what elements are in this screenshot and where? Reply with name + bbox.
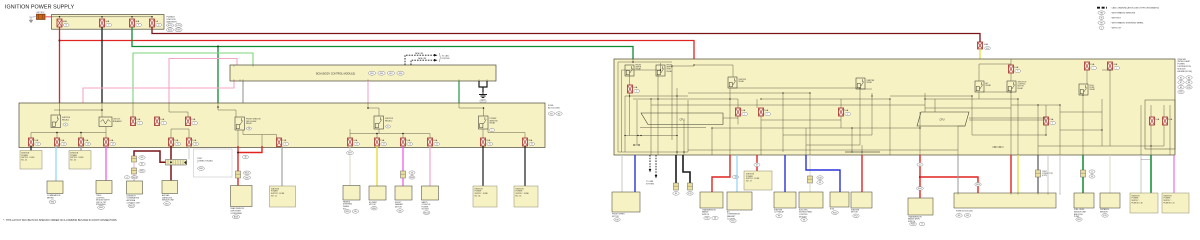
svg-text:CONNECTOR-M04: CONNECTOR-M04 — [197, 160, 213, 162]
wire dark gray to fuse block — [1037, 155, 1039, 170]
svg-text:M65: M65 — [370, 73, 374, 75]
svg-text:* : THIS LAYOUT MAY BE IN NO S: * : THIS LAYOUT MAY BE IN NO SPECIFIC OR… — [3, 219, 118, 222]
svg-text:NO. 46: NO. 46 — [70, 160, 76, 162]
fuse IPDM 20A 45 — [1108, 62, 1113, 70]
wire white front wiper — [621, 155, 623, 192]
wire maroon branch to antenna — [134, 151, 166, 162]
svg-text:SWITCH: SWITCH — [702, 214, 710, 216]
svg-text:e: e — [744, 114, 745, 116]
wire pink BCM down to fuse block — [367, 81, 369, 103]
ECM box — [830, 192, 849, 207]
svg-text:10A: 10A — [764, 109, 768, 112]
electric works box — [799, 192, 823, 208]
wire green fuel pump — [1082, 155, 1084, 170]
fusible link F1 40A — [57, 19, 62, 27]
fuse row bottom 10 — [428, 138, 433, 146]
svg-text:F101: F101 — [833, 212, 837, 214]
CAN data line 1 — [405, 55, 434, 65]
svg-text:B85: B85 — [245, 177, 248, 179]
svg-text:NO. 47: NO. 47 — [746, 181, 752, 183]
svg-text:IGNITION POWER SUPPLY: IGNITION POWER SUPPLY — [5, 5, 75, 11]
svg-text:M34: M34 — [51, 202, 55, 204]
svg-text:M77: M77 — [348, 153, 352, 155]
svg-text:: WITH HEATED MIRRORS: : WITH HEATED MIRRORS — [1111, 12, 1136, 15]
svg-text:28: 28 — [411, 172, 413, 174]
svg-text:M46: M46 — [199, 168, 203, 170]
svg-text:RELAY: RELAY — [867, 81, 873, 84]
wire red to fuse block — [1010, 155, 1012, 193]
fuse row bottom 3 — [79, 138, 84, 146]
svg-text:47: 47 — [756, 165, 758, 167]
CPU bar 2 — [917, 112, 969, 126]
wire white short — [188, 146, 190, 160]
svg-text:DATA LINE: DATA LINE — [418, 57, 427, 60]
svg-text:FUSE BLOCK (J/B): FUSE BLOCK (J/B) — [956, 211, 973, 213]
svg-text:M2: M2 — [558, 113, 561, 115]
wire magenta to TWDS module — [105, 146, 107, 181]
svg-text:: WITH CVT: : WITH CVT — [1111, 28, 1123, 30]
svg-text:20A: 20A — [1113, 63, 1117, 66]
svg-text:11: 11 — [1091, 171, 1093, 173]
svg-text:4: 4 — [127, 177, 128, 179]
text box ignition power supply right 2 — [1162, 193, 1189, 213]
wire white to fuse block 2 — [1059, 155, 1061, 193]
circuit breaker — [99, 117, 112, 127]
ground wire 2 — [683, 155, 690, 183]
ground wire 1 — [675, 155, 677, 183]
ground connector oval — [480, 99, 486, 103]
svg-text:SENSOR: SENSOR — [1100, 212, 1108, 214]
svg-text:22: 22 — [383, 144, 385, 146]
fusible link F4 100A — [150, 19, 155, 27]
wire red PNP switch — [919, 155, 921, 163]
svg-text:M57: M57 — [481, 101, 485, 103]
ignition relay-1 — [51, 115, 61, 128]
svg-text:M84: M84 — [99, 207, 103, 209]
svg-text:RELAY: RELAY — [739, 80, 745, 83]
svg-text:25: 25 — [489, 144, 491, 146]
legend HS — [1098, 21, 1105, 25]
fuse row bottom 9 — [401, 138, 406, 146]
combination meter box — [47, 181, 63, 194]
svg-text:*: * — [197, 163, 198, 165]
svg-text:: CAN COMMUNICATION LINE (TYPE: : CAN COMMUNICATION LINE (TYPE DESIGNATE… — [1111, 7, 1160, 10]
wire red transmission — [712, 155, 730, 192]
air bag diagnosis box — [162, 181, 178, 194]
svg-text:M9: M9 — [354, 211, 357, 213]
svg-text:M30: M30 — [346, 211, 350, 213]
connector square wiper — [401, 171, 406, 178]
svg-text:10A: 10A — [433, 139, 437, 142]
wire dark green branch to fuse block — [217, 47, 219, 104]
A C compressor box — [727, 192, 752, 210]
svg-text:26: 26 — [531, 144, 533, 146]
junction dot green — [217, 46, 219, 48]
svg-text:11: 11 — [37, 144, 39, 146]
IPDM inner box right — [1145, 100, 1175, 149]
front window defogger relay — [218, 103, 236, 117]
connector oval M77 — [349, 146, 351, 151]
fuse IPDM 10A 38 — [839, 108, 844, 116]
legend MT — [1099, 16, 1104, 20]
svg-text:B24: B24 — [1077, 219, 1080, 221]
wire red horizontal to IPDM — [60, 41, 695, 60]
svg-text:10A: 10A — [136, 118, 140, 121]
svg-text:M67: M67 — [389, 73, 393, 75]
svg-text:15A: 15A — [380, 139, 384, 142]
svg-text:: WITH HEATED STEERING WHEEL: : WITH HEATED STEERING WHEEL — [1111, 22, 1145, 25]
wire green BCM down to fuse block — [458, 81, 460, 103]
svg-text:10A: 10A — [1168, 118, 1172, 121]
fuse row bottom 2 — [55, 138, 60, 146]
wire yellow blower motor — [376, 146, 378, 186]
svg-text:(F125): (F125) — [1042, 175, 1047, 177]
svg-text:E155: E155 — [176, 30, 180, 32]
svg-text:RELAY: RELAY — [1090, 88, 1096, 91]
wire to antenna box — [133, 174, 135, 181]
CPU bar 1 — [641, 113, 723, 125]
front wiper relay — [625, 65, 634, 76]
power window relay — [459, 103, 484, 116]
fuel pump relay — [1079, 84, 1088, 95]
svg-text:20A: 20A — [486, 139, 490, 142]
wire red fuse 47 — [756, 155, 758, 163]
svg-text:SOCKET: SOCKET — [422, 209, 430, 211]
svg-text:b: b — [388, 126, 389, 128]
svg-text:a: a — [65, 124, 66, 126]
svg-text:SYSTEM: SYSTEM — [442, 58, 450, 60]
fuse block J/B box — [19, 103, 545, 148]
wire maroon feed to IPDM — [152, 27, 980, 42]
fuse IPDM 15A mid — [1044, 117, 1049, 125]
svg-text:F12: F12 — [854, 216, 857, 218]
wire pink console socket — [429, 146, 431, 186]
wire blue starter cut — [784, 155, 786, 192]
svg-text:10A: 10A — [60, 139, 64, 142]
wire beige electric works — [809, 155, 811, 176]
connector M2 — [556, 112, 562, 116]
svg-text:F8: F8 — [803, 219, 805, 221]
fuse row bottom 6 — [187, 138, 192, 146]
wire red battery feed — [59, 27, 61, 103]
IPDM ER box — [614, 59, 1175, 155]
svg-text:M121: M121 — [245, 173, 250, 175]
wire pink antenna — [133, 162, 135, 168]
fuse 50A at IPDM input — [978, 42, 983, 49]
svg-text:10A: 10A — [192, 139, 196, 142]
wire gray to fuse label — [80, 146, 82, 151]
fuse 15A defogger — [277, 138, 282, 147]
console power socket box — [422, 186, 439, 200]
svg-text:10A: 10A — [174, 139, 178, 142]
wire dark green feed — [132, 27, 633, 59]
fusible link box — [52, 15, 165, 30]
svg-text:10A: 10A — [109, 139, 113, 142]
svg-text:M8: M8 — [399, 210, 402, 212]
svg-text:B203: B203 — [234, 217, 238, 219]
wire light green BCM to fuse block — [133, 53, 253, 103]
connector E153 — [175, 24, 182, 28]
svg-text:16: 16 — [195, 144, 197, 146]
joint connector bar — [166, 160, 187, 166]
wire pink BCM bottom to fuse block — [83, 81, 234, 103]
fuse 10A row2 c — [169, 103, 188, 117]
svg-text:24: 24 — [436, 144, 438, 146]
A C relay — [975, 81, 984, 92]
svg-text:10A: 10A — [1155, 118, 1159, 121]
svg-text:M1: M1 — [550, 113, 553, 115]
relay-2 output bus — [378, 129, 380, 134]
connector M66 — [378, 71, 385, 75]
connector oval 46 — [243, 155, 249, 158]
ground at battery — [29, 17, 33, 23]
svg-text:42: 42 — [735, 177, 737, 179]
BCM ground wires — [479, 81, 487, 87]
wire white to fuse block 1 — [1047, 155, 1049, 193]
blower motor box — [369, 186, 386, 200]
svg-text:(BATTERY): (BATTERY) — [167, 20, 178, 23]
svg-text:E3: E3 — [986, 48, 988, 50]
BCM pin ticks — [234, 65, 487, 81]
svg-text:DATA LINE: DATA LINE — [415, 52, 424, 55]
battery BAT — [37, 14, 46, 19]
svg-text:BCM (BODY CONTROL MODULE): BCM (BODY CONTROL MODULE) — [316, 72, 355, 75]
svg-text:c: c — [492, 130, 493, 132]
svg-text:10A: 10A — [160, 118, 164, 121]
svg-text:F9: F9 — [778, 216, 780, 218]
svg-text:M66: M66 — [380, 73, 384, 75]
ignition relay-2 — [368, 103, 379, 116]
svg-text:E9: E9 — [1180, 87, 1182, 89]
svg-text:M501: M501 — [129, 206, 134, 208]
wire cyan to combination meter — [55, 146, 57, 181]
bus wire ignition relay feed — [59, 103, 61, 115]
fuse 10A row2 b — [155, 117, 160, 126]
fuse block pin labels — [958, 193, 1060, 195]
svg-text:21: 21 — [356, 144, 358, 146]
connector M65 — [368, 71, 375, 75]
svg-text:10A: 10A — [406, 139, 410, 142]
svg-text:RELAY: RELAY — [986, 84, 992, 87]
connector square defogger — [236, 171, 241, 178]
svg-text:HM: HM — [1100, 12, 1103, 14]
wire black fuse 36 — [482, 146, 484, 186]
svg-text:10A: 10A — [741, 109, 745, 112]
svg-text:: WITH M/T: : WITH M/T — [1111, 18, 1122, 20]
fuse row bottom 5 — [170, 129, 172, 138]
connector square 1 — [132, 156, 137, 162]
connector square fuel — [1081, 170, 1086, 177]
wire yellow to fuse block — [1017, 155, 1019, 193]
svg-text:NO. 36: NO. 36 — [475, 195, 481, 197]
svg-text:50A: 50A — [984, 43, 988, 46]
svg-text:RELAY: RELAY — [490, 122, 497, 125]
transmission box — [700, 192, 723, 208]
svg-text:SYSTEM: SYSTEM — [646, 183, 654, 185]
fuse row bottom 8 — [375, 138, 380, 146]
distance sensor box — [1100, 193, 1120, 208]
svg-text:RELAY-1: RELAY-1 — [62, 118, 69, 121]
fuse IPDM inner 1 — [1150, 117, 1155, 125]
svg-text:M4: M4 — [966, 215, 969, 217]
svg-text:ENGINE ROOM): ENGINE ROOM) — [1178, 71, 1193, 73]
wire gray to fuse block — [957, 155, 959, 193]
svg-text:12: 12 — [63, 144, 65, 146]
to CAN system label — [439, 53, 442, 62]
wire red starter motor — [861, 155, 863, 192]
text box ignition power supply fuse 12 — [270, 186, 296, 207]
svg-text:F502: F502 — [911, 224, 915, 226]
svg-text:23: 23 — [409, 144, 411, 146]
wire beige distance sensor — [1109, 155, 1111, 193]
svg-text:13: 13 — [87, 144, 89, 146]
wire blue front wiper — [634, 155, 636, 192]
svg-text:3: 3 — [139, 123, 140, 125]
svg-text:15A: 15A — [1049, 118, 1053, 121]
starter cut relay box — [774, 192, 796, 208]
svg-text:E10: E10 — [1187, 87, 1190, 89]
svg-text:E31: E31 — [1103, 215, 1106, 217]
svg-text:E8: E8 — [1188, 82, 1190, 84]
svg-text:MOTOR: MOTOR — [612, 216, 619, 218]
svg-text:M3: M3 — [958, 215, 961, 217]
svg-text:F50: F50 — [705, 218, 708, 220]
wire green text box 7 — [1150, 155, 1152, 193]
svg-text:4: 4 — [163, 123, 164, 125]
fusible link F2 50A — [100, 19, 105, 27]
joint connector M04 dashed outline — [194, 149, 233, 177]
svg-text:RELAY: RELAY — [246, 122, 253, 125]
svg-text:40A: 40A — [63, 20, 67, 23]
svg-text:NO. 35: NO. 35 — [516, 195, 522, 197]
svg-text:41: 41 — [919, 164, 921, 166]
svg-text:15A: 15A — [1090, 63, 1094, 66]
wire magenta front wiper — [402, 146, 404, 171]
fuse row bottom 12 — [523, 138, 528, 146]
svg-text:g: g — [847, 114, 848, 116]
svg-text:15A: 15A — [191, 118, 195, 121]
svg-text:SENSOR UNIT: SENSOR UNIT — [162, 200, 175, 202]
fuse row bottom 4 — [104, 138, 109, 146]
starter motor box — [851, 192, 872, 208]
heated steering wheel box — [343, 186, 360, 201]
IPDM junction dots — [632, 61, 633, 62]
fuse block JB right — [954, 193, 1056, 208]
svg-text:20A: 20A — [528, 139, 532, 142]
connector oval PNP — [917, 187, 924, 191]
text box ignition power supply fuse 47 — [744, 171, 772, 190]
fusible link box internal bus — [52, 16, 152, 18]
svg-text:M503: M503 — [132, 177, 137, 179]
wire black to fuse label — [30, 146, 32, 151]
fuse IPDM 10A 37 — [759, 108, 764, 116]
svg-text:CONDENSER: CONDENSER — [231, 213, 243, 215]
CAN dashed wire 1 — [649, 155, 651, 169]
wire pink BCM top to fuse block — [169, 59, 237, 104]
throttle control motor relay — [1007, 81, 1016, 92]
fuse row bottom 7 — [349, 129, 351, 134]
power window relay outputs — [482, 129, 484, 138]
IPDM connector ovals — [1178, 76, 1184, 80]
svg-text:C6: C6 — [248, 128, 250, 130]
front wiper motor box — [395, 186, 412, 200]
svg-text:E153: E153 — [176, 25, 180, 27]
legend HM — [1098, 11, 1105, 15]
front wiper high relay — [656, 65, 665, 76]
svg-text:M55: M55 — [165, 203, 169, 205]
wire black feed — [101, 27, 103, 103]
wire maroon joint connector feed — [170, 146, 172, 181]
ignition relay IPDM — [728, 77, 737, 88]
svg-text:E5: E5 — [1180, 77, 1182, 79]
svg-text:MOTOR: MOTOR — [395, 206, 402, 208]
fuse IPDM 10A 36 — [736, 108, 741, 116]
CAN dashed wire 2 — [655, 155, 657, 175]
connector M68 — [397, 71, 404, 75]
svg-text:E15: E15 — [688, 193, 691, 195]
svg-text:46: 46 — [245, 157, 247, 159]
svg-text:36: 36 — [714, 218, 716, 220]
antenna control unit box — [127, 181, 143, 194]
fuel level sensor box — [1074, 193, 1094, 208]
svg-text:RELAY: RELAY — [1018, 87, 1024, 90]
svg-text:10A: 10A — [84, 139, 88, 142]
wire pink text box 8 — [1173, 155, 1175, 193]
svg-text:RELAY-2: RELAY-2 — [385, 119, 392, 122]
starter relay — [856, 78, 865, 89]
fuse IPDM 10A 43 — [1009, 65, 1014, 73]
connector E152 — [166, 24, 173, 28]
svg-text:d: d — [636, 91, 637, 93]
joint connector F125 — [1036, 170, 1041, 177]
CAN data line 2 — [411, 60, 434, 65]
text box ignition power supply fuse 36 — [473, 186, 497, 207]
wire yellow into IPDM — [979, 49, 981, 59]
text box ignition power supply fuse 45 — [20, 151, 42, 170]
svg-text:M68: M68 — [399, 73, 403, 75]
wire white text box 7 — [1140, 155, 1142, 193]
connector ovals above antenna box — [124, 176, 129, 179]
svg-text:5: 5 — [194, 123, 195, 125]
svg-text:BATTERY: BATTERY — [36, 11, 45, 14]
front wiper motor box — [612, 192, 640, 212]
svg-text:E7: E7 — [1180, 82, 1182, 84]
svg-text:M212: M212 — [424, 212, 429, 214]
svg-text:50A: 50A — [105, 20, 109, 23]
svg-text:M33: M33 — [976, 184, 980, 186]
wire black fuse 35 — [524, 146, 526, 186]
svg-text:M66: M66 — [372, 208, 376, 210]
ground symbol BCM — [479, 92, 487, 98]
svg-text:NO. 45: NO. 45 — [21, 160, 27, 162]
svg-text:14: 14 — [112, 144, 114, 146]
svg-text:10A: 10A — [34, 139, 38, 142]
svg-text:RELAY: RELAY — [636, 68, 642, 71]
svg-text:CPU: CPU — [939, 119, 944, 122]
text box ignition power supply fuse 46 — [69, 151, 91, 170]
PNP switch box — [908, 198, 933, 215]
svg-text:MOTOR: MOTOR — [851, 212, 858, 214]
svg-text:E35: E35 — [615, 219, 618, 221]
wire red branch to fuse block — [920, 177, 978, 182]
svg-text:40A: 40A — [135, 20, 139, 23]
svg-text:M9: M9 — [141, 157, 144, 159]
svg-text:F502: F502 — [918, 188, 922, 190]
fusible link F3 40A — [130, 19, 135, 27]
svg-text:M36: M36 — [410, 177, 414, 179]
wire blue ECM — [806, 155, 840, 192]
svg-text:10A: 10A — [353, 139, 357, 142]
